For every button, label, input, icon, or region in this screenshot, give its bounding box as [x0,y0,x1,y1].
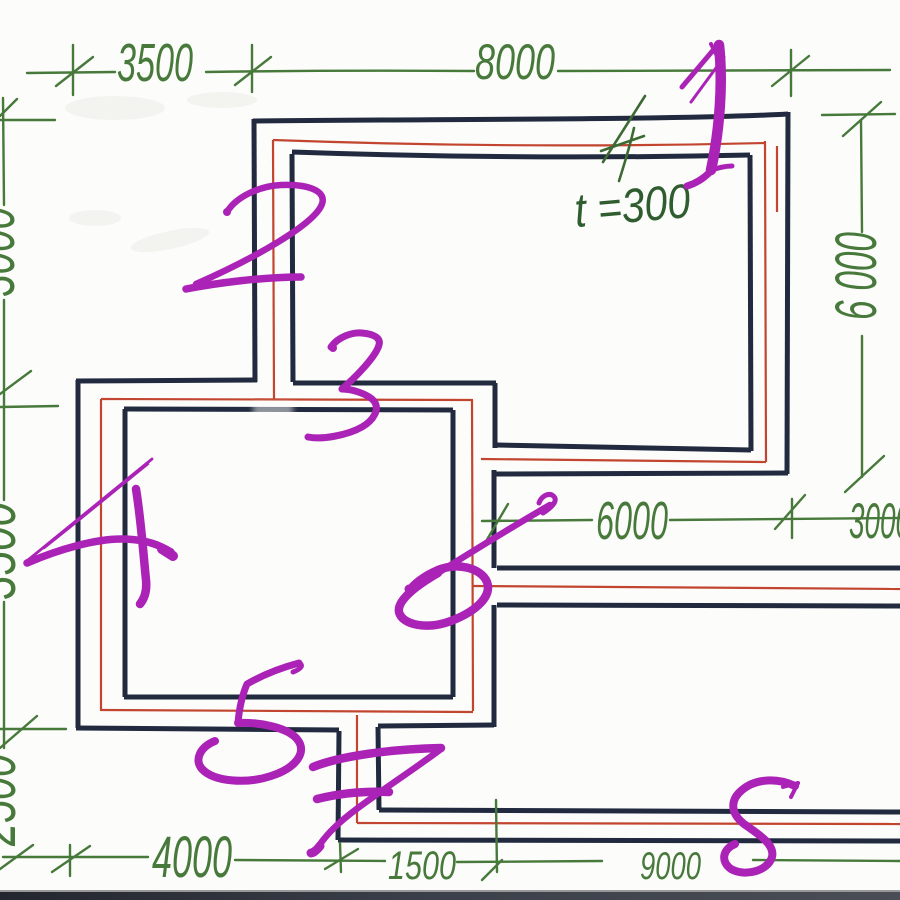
svg-text:3000: 3000 [0,207,27,297]
wall: lower room outer right middle segment [492,470,497,568]
svg-text:2500: 2500 [0,754,28,847]
numeral 5 [198,663,301,781]
faint smudges [65,92,257,257]
svg-text:1500: 1500 [388,844,456,888]
tick bottom x70 [69,845,71,876]
wall: lower room outer right upper segment [493,383,498,448]
red line: upper room left [273,140,274,399]
red line: upper room top [273,140,766,145]
eraser fade on lower room inner top edge [253,403,293,416]
wall: lower room inner top [124,409,453,410]
tick top x790 [790,50,792,96]
video progress bar [0,890,900,893]
tick top x72 [72,45,74,95]
tick bottom-left corner [0,845,33,869]
red line: corridor center [473,586,900,589]
svg-text:6 000: 6 000 [824,232,889,320]
svg-text:8000: 8000 [475,34,555,90]
leader symbol for t=300 [601,96,645,181]
wall: upper room inner left [292,154,293,382]
numeral 8 [724,780,798,872]
wall: upper room outer left [254,119,255,382]
wall: lower room inner bottom [124,695,453,700]
tick left y387 [0,371,31,394]
red line: bottom wall center [357,823,900,824]
dimension line: middle 6000 [482,520,592,521]
svg-text:4000: 4000 [152,825,232,890]
wall: bottom wall bottom line [338,840,900,841]
red line: lower room right [472,400,473,711]
wall: step inner vertical [378,727,379,810]
wall: upper room inner top [292,152,750,157]
wall: upper room outer right [787,112,788,474]
wall: lower room inner right [451,410,456,697]
numeral 6 [399,494,555,625]
wall: lower room outer right lower segment [492,605,497,727]
svg-text:t =300: t =300 [572,175,692,238]
red line: lower room bottom [101,710,473,712]
tick mid x792 [791,499,793,538]
tick right bottom [845,456,884,492]
tick mid x497 [485,504,508,543]
red line: upper room bottom [481,459,766,462]
svg-text:6000: 6000 [596,491,668,551]
tick bottom x496 [496,800,497,872]
dimension line: bottom [3,856,148,858]
tick top x251 [251,45,253,92]
svg-text:3500: 3500 [0,502,28,600]
wall: lower room outer bottom right segment [378,725,494,726]
wall: lower room outer top right segment [293,381,496,386]
wall: upper room outer bottom [494,473,788,474]
wall: upper room inner bottom [497,445,751,450]
numeral 7 [311,748,441,853]
wall: lower room inner left [123,409,128,697]
numeral 4 [27,459,173,604]
tick left y761 [0,716,37,748]
svg-text:9000: 9000 [640,845,701,888]
red line: upper room right [765,141,766,462]
right vertical dim line (6 000) [861,120,862,232]
red line: upper room right short double [776,146,778,212]
numeral 2 [186,185,323,289]
tick right top [822,114,895,115]
numeral 1 [682,44,732,186]
numeral 3 [308,333,379,438]
svg-text:3500: 3500 [117,33,193,93]
wall: lower room outer top left segment [76,380,257,381]
wall: lower room outer left [76,380,81,728]
wall: corridor top [497,566,900,571]
red line: lower room left [100,399,102,711]
red line: lower room top [101,399,473,400]
wall: lower room outer bottom left segment [76,728,339,730]
dimension line: top [27,72,115,73]
wall: step left vertical [338,731,339,840]
extension: top-left corner [3,98,4,205]
wall: corridor bottom [497,605,900,606]
wall: bottom wall top line [379,810,900,812]
wall: upper room outer top [253,114,788,121]
red line: step vertical [356,715,358,823]
wall: upper room inner right [750,155,751,451]
tick bottom x340 [340,843,341,872]
svg-text:3000: 3000 [849,493,900,549]
